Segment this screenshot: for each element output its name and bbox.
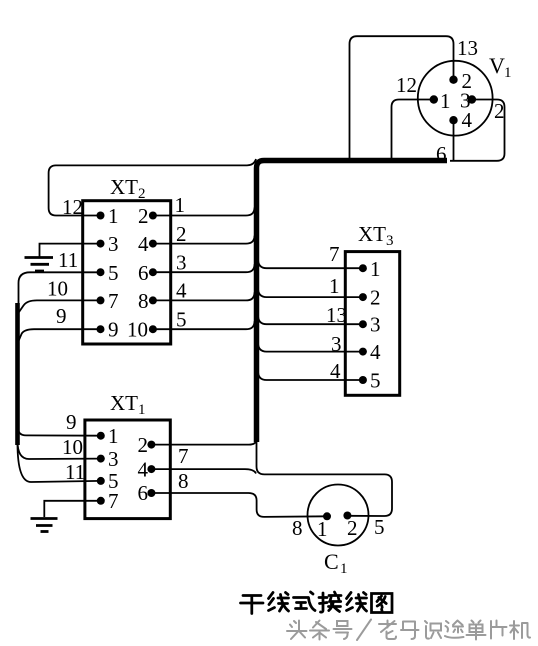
wire 8 (XT1 pin6 to C1 pin1) [151,493,327,517]
svg-text:7: 7 [108,489,119,513]
svg-text:11: 11 [58,248,78,272]
wire 13 (V1 pin2 loop to trunk) [350,36,454,159]
svg-text:1: 1 [370,257,381,281]
svg-text:6: 6 [138,261,149,285]
XT2 right wire 2 to trunk [153,236,255,244]
svg-text:2: 2 [138,186,146,202]
ground symbol (XT1) [31,517,58,520]
svg-text:1: 1 [329,274,340,298]
svg-text:2: 2 [347,516,358,540]
svg-text:1: 1 [138,402,146,418]
svg-text:3: 3 [176,251,187,275]
XT1 pin 6 [147,489,155,497]
wire 6 (V1 pin4 down to trunk end) [453,120,455,160]
wm char 单 [467,621,486,640]
wire 4 (trunk to XT3 pin5) [258,371,363,380]
svg-text:9: 9 [108,318,119,342]
XT2 pin 9 [97,325,105,333]
wm char 条 [310,621,329,640]
wm char 片 [491,621,507,639]
svg-text:4: 4 [176,279,187,303]
svg-text:4: 4 [138,458,149,482]
XT1 pin 5 [97,477,105,485]
XT3 pin 4 [359,348,367,356]
svg-text:7: 7 [178,444,189,468]
XT3 pin 1 [359,264,367,272]
wm char 头 [287,621,307,640]
svg-text:2: 2 [138,204,149,228]
XT1 pin7 ground wire [44,501,101,517]
XT2 pin 1 [97,212,105,220]
wire 1 (trunk to XT3 pin2) [258,288,363,297]
svg-text:6: 6 [436,142,447,166]
left bundle (thick) between XT2 and XT1 [15,303,20,445]
XT1 pin 3 [97,455,105,463]
wm char 马 [401,622,419,640]
XT1 pin 7 [97,497,105,505]
XT2 pin 7 [97,296,105,304]
svg-text:1: 1 [108,204,119,228]
V1 pin 3 [468,95,476,103]
wire 11 (XT2 pin5 to left bundle) [19,272,101,307]
svg-text:3: 3 [370,313,381,337]
wire 3 (trunk to XT3 pin4) [258,343,363,352]
caption 干线式接线图 [241,592,393,614]
svg-text:13: 13 [326,303,347,327]
svg-text:8: 8 [138,289,149,313]
wire 10 (bundle to XT1 pin3) [18,441,101,459]
wire 6 (XT1 pin2 to trunk bottom) [151,439,256,445]
XT2 right wire 1 to trunk [153,208,255,216]
svg-text:5: 5 [108,261,119,285]
terminal block XT2 [83,201,171,344]
XT2 right wire 4 to trunk [153,292,255,300]
svg-text:3: 3 [386,233,394,249]
svg-text:4: 4 [330,359,341,383]
svg-text:1: 1 [317,517,328,541]
svg-text:2: 2 [370,286,381,310]
svg-text:V: V [489,53,505,78]
svg-text:10: 10 [127,318,148,342]
XT2 pin 2 [149,212,157,220]
svg-text:1: 1 [440,89,451,113]
svg-text:C: C [324,549,339,574]
XT1 pin 4 [147,465,155,473]
wm char 识 [425,621,441,639]
svg-text:4: 4 [370,340,381,364]
char 图 [372,594,393,613]
svg-text:2: 2 [138,433,149,457]
XT2 pin 10 [149,325,157,333]
svg-text:12: 12 [62,195,83,219]
wire 13 (trunk to XT3 pin3) [258,315,363,324]
XT2 pin 4 [149,240,157,248]
svg-text:1: 1 [504,65,512,81]
wire 2 (V1 pin3 to trunk end) [450,100,505,161]
svg-text:5: 5 [374,515,385,539]
char 接 [319,592,341,612]
svg-text:11: 11 [65,460,85,484]
svg-text:7: 7 [329,242,340,266]
XT2 pin 8 [149,296,157,304]
watermark 头条号 / 老马识途单片机 [287,620,530,641]
wire 9 (bundle to XT1 pin1) [18,426,101,436]
char 式 [294,592,316,611]
svg-text:10: 10 [62,435,83,459]
wire 7 (trunk to XT3 pin1) [258,259,363,268]
svg-text:4: 4 [462,108,473,132]
svg-text:XT: XT [358,222,386,246]
wm slash [357,620,371,641]
C1 pin 1 [323,512,331,520]
XT1 pin 2 [147,441,155,449]
svg-text:XT: XT [110,391,138,415]
svg-text:9: 9 [56,304,67,328]
XT3 pin 2 [359,293,367,301]
svg-text:13: 13 [457,36,478,60]
svg-text:6: 6 [138,481,149,505]
svg-text:10: 10 [47,277,68,301]
wm char 机 [510,621,530,639]
C1 pin 2 [343,512,351,520]
wire 9 (XT2 pin9 to left bundle) [19,329,101,341]
svg-text:3: 3 [108,447,119,471]
char 线 [269,593,289,612]
XT1 pin 1 [97,432,105,440]
XT2 pin 6 [149,268,157,276]
svg-text:7: 7 [108,289,119,313]
XT3 pin 3 [359,320,367,328]
svg-text:3: 3 [108,232,119,256]
char 干 [241,596,264,614]
wm char 老 [379,621,396,640]
V1 pin 2 [449,76,457,84]
terminal block XT3 [345,252,399,396]
wire 7 (XT1 pin4 to trunk junction) [151,469,256,473]
XT2 pin 5 [97,268,105,276]
connector C1 circle [308,485,369,546]
svg-text:1: 1 [108,424,119,448]
wm char 途 [445,621,464,638]
wire 12 (V1 pin1 to trunk) [392,100,434,160]
V1 pin 1 [430,95,438,103]
XT2 pin 3 [97,240,105,248]
svg-text:2: 2 [176,222,187,246]
wire 11 (bundle to XT1 pin5) [18,443,101,482]
wm char 号 [334,621,352,639]
terminal block XT1 [85,420,170,519]
XT2 right wire 5 to trunk [153,321,255,329]
svg-text:4: 4 [138,232,149,256]
svg-text:1: 1 [340,561,348,577]
svg-text:5: 5 [176,308,187,332]
char 线 [347,593,367,612]
wire 10 (XT2 pin7 to left bundle) [19,300,101,312]
svg-text:5: 5 [370,369,381,393]
trunk bus (thick) [257,161,448,443]
V1 pin 4 [449,116,457,124]
XT2 right wire 3 to trunk [153,264,255,272]
svg-text:9: 9 [66,410,77,434]
svg-text:12: 12 [396,73,417,97]
svg-text:XT: XT [110,175,138,199]
svg-text:2: 2 [494,99,505,123]
connector V1 circle [418,61,493,136]
XT2 pin1 wire loop (wire 12 left side) [49,159,256,216]
svg-text:8: 8 [178,469,189,493]
svg-text:3: 3 [331,332,342,356]
ground symbol (XT2) [25,256,54,259]
svg-text:1: 1 [175,193,186,217]
XT3 pin 5 [359,376,367,384]
trunk tail wire to C1 pin 2 (wire 5 path) [257,440,393,516]
svg-text:8: 8 [292,516,303,540]
XT2 pin3 ground wire [40,244,101,257]
